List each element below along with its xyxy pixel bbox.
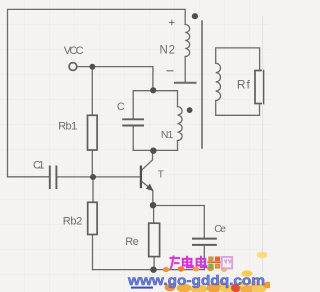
wire emitter [141, 181, 153, 205]
N2 phase dot [192, 13, 198, 19]
wire tank bottom [133, 149, 177, 151]
wire Rb1 bottom lead [91, 150, 93, 177]
wire feedback loop (C1 left - up - top - to N2 top) [8, 9, 186, 176]
emitter junction dot [150, 202, 156, 208]
label - (N2 polarity) [167, 70, 174, 72]
capacitor Ce plates [192, 239, 217, 245]
svg-text:VCC: VCC [64, 45, 84, 57]
resistor Rb2 [88, 202, 97, 234]
wire Re bottom lead [153, 257, 155, 270]
char 电 (2) [197, 256, 207, 267]
watermark underline bar [131, 287, 153, 289]
svg-text:Re: Re [125, 236, 138, 248]
svg-text:C1: C1 [33, 160, 45, 172]
transistor emitter arrowhead [146, 184, 154, 192]
winding of Rf loop [216, 63, 221, 100]
N1 phase dot [187, 107, 193, 113]
transformer core [201, 21, 203, 148]
wire Re top lead [153, 206, 155, 224]
collector junction dot [150, 148, 156, 154]
wire Rb2 bottom lead to rail [92, 235, 94, 270]
winding N2 [185, 25, 190, 57]
wire Rb1 top lead [91, 67, 93, 116]
tank top junction dot [150, 87, 156, 93]
wire Ce bottom lead [203, 246, 205, 270]
wire VCC to node A [77, 66, 92, 68]
svg-text:Rf: Rf [237, 78, 251, 92]
svg-text:Rb1: Rb1 [58, 121, 77, 133]
resistor Rf [255, 71, 264, 104]
svg-text:N1: N1 [161, 129, 174, 141]
label + (N2 polarity) [169, 20, 175, 26]
char 广 [170, 256, 181, 269]
char 网 [222, 257, 232, 268]
Rf loop wires [216, 48, 260, 71]
wire capacitor C bottom lead [132, 126, 134, 150]
winding N1 [178, 107, 183, 141]
wire collector [141, 151, 152, 171]
svg-text:Ce: Ce [214, 223, 226, 235]
svg-text:T: T [158, 170, 164, 181]
resistor Rb1 [88, 115, 98, 150]
N2 minus terminal bar [175, 82, 196, 84]
resistor Re [149, 223, 160, 256]
svg-text:N2: N2 [160, 44, 176, 56]
wire C1 right to base [57, 176, 140, 178]
wire C1 left [8, 176, 49, 178]
Rf loop bottom wire [216, 101, 260, 116]
VCC terminal circle [69, 63, 77, 71]
svg-text:C: C [117, 101, 125, 113]
wire tank top [133, 91, 177, 119]
svg-text:www.go-gddq.com: www.go-gddq.com [127, 272, 265, 288]
wire N2 bottom lead [184, 57, 186, 82]
capacitor C1 plates [50, 166, 57, 190]
wire Rb2 top lead [92, 177, 94, 202]
node A junction dot [90, 64, 96, 70]
svg-text:Rb2: Rb2 [63, 215, 83, 227]
wire node A to tank top [92, 67, 152, 91]
right page edge line [262, 16, 264, 272]
wire bottom rail [93, 269, 205, 271]
watermark paint splats [163, 252, 273, 292]
bottom rail junction dot [150, 267, 156, 273]
transistor Q T base bar [140, 166, 142, 189]
base junction dot [90, 174, 96, 180]
wire emitter rail to Ce [153, 206, 204, 238]
char 器 [207, 257, 220, 269]
wire N1 bottom lead [177, 141, 179, 151]
capacitor C plates [122, 119, 144, 125]
watermark chinese text 广电电器网 [170, 256, 233, 269]
char 电 (1) [183, 256, 193, 267]
